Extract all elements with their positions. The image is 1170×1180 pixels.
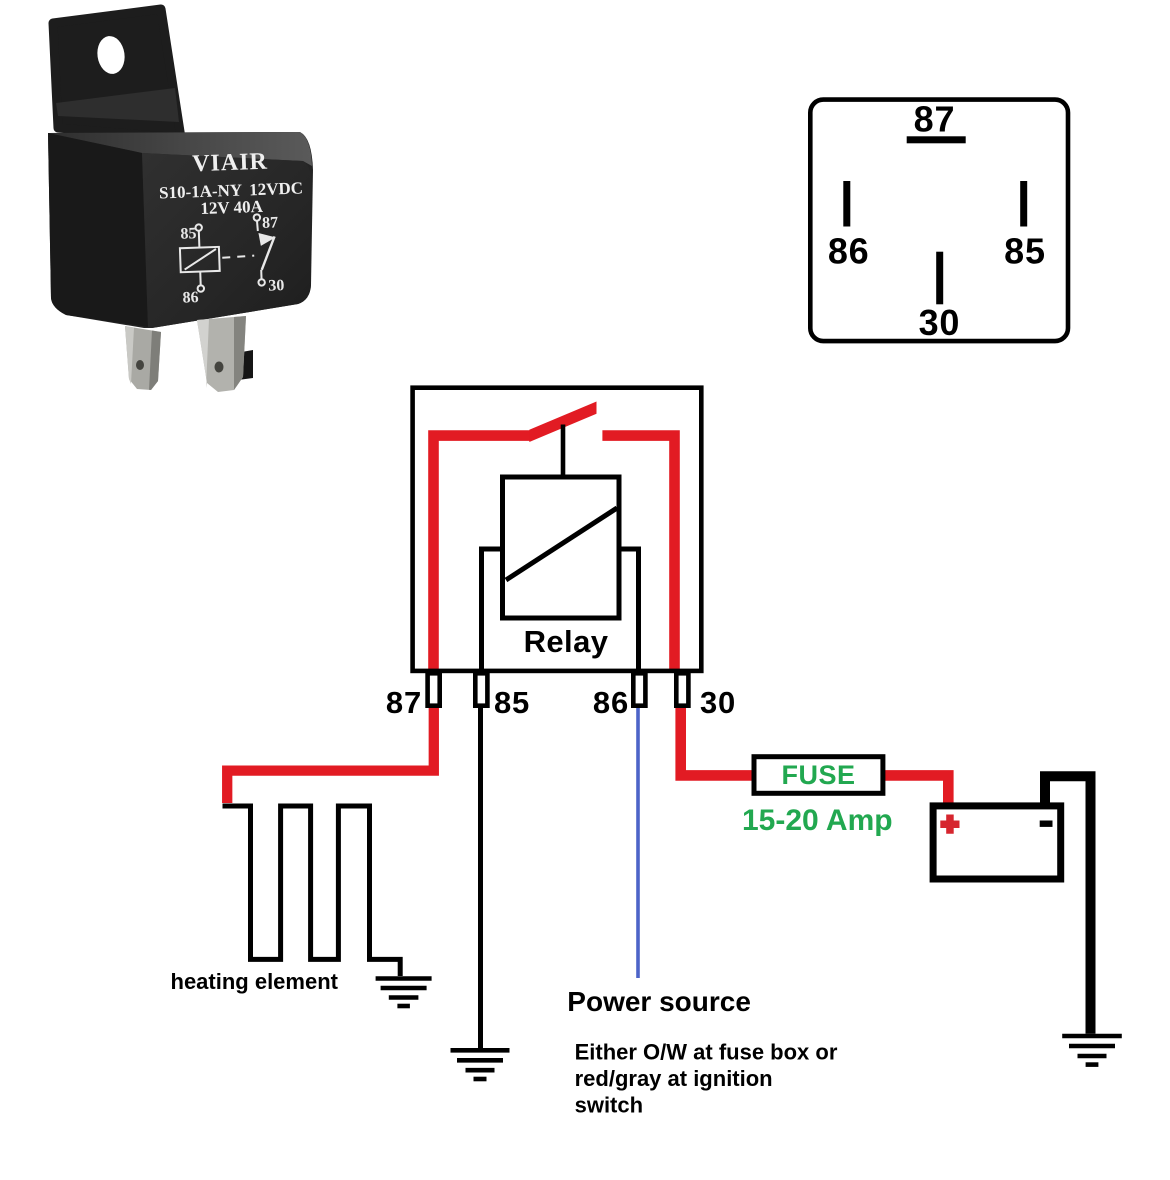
pin 30 connector <box>676 673 688 705</box>
svg-text:VIAIR: VIAIR <box>192 149 269 178</box>
fuse box <box>754 757 883 794</box>
svg-text:Power source: Power source <box>567 986 751 1017</box>
body left side face <box>48 133 148 327</box>
wire blue from pin 86 to power source <box>636 706 640 978</box>
printed pin number labels <box>180 214 285 307</box>
pin 86 connector <box>633 673 645 705</box>
heating element <box>223 806 401 976</box>
coil diagonal <box>506 508 617 580</box>
svg-text:86: 86 <box>182 289 199 307</box>
body top face <box>48 132 312 166</box>
wire black pin 86 staple <box>622 549 639 671</box>
wire red from pin 87 to heating element <box>227 704 434 804</box>
relay photo mounting tab <box>53 9 181 138</box>
svg-text:86: 86 <box>593 685 629 720</box>
printed 85 terminal <box>195 224 202 231</box>
pinout 30 pin bar <box>936 252 943 305</box>
battery minus terminal <box>1040 821 1053 827</box>
switch link black <box>561 425 566 478</box>
wire red from fuse to battery <box>884 775 948 803</box>
svg-text:30: 30 <box>268 277 285 295</box>
switch blade red <box>529 402 596 443</box>
pin 85 connector <box>475 673 487 705</box>
printed coil box <box>180 247 220 272</box>
svg-text:86: 86 <box>828 230 870 271</box>
wire red from pin 30 to fuse <box>681 704 753 776</box>
coil box <box>503 477 620 618</box>
svg-text:87: 87 <box>262 214 279 232</box>
svg-text:87: 87 <box>386 685 422 720</box>
svg-text:FUSE: FUSE <box>781 760 855 790</box>
wire black pin 85 staple <box>482 549 501 671</box>
svg-text:Relay: Relay <box>524 624 609 659</box>
relay internal red wire left (pin 87 side) <box>434 436 532 671</box>
svg-text:red/gray at ignition: red/gray at ignition <box>575 1066 773 1091</box>
pinout 86 pin bar <box>843 181 850 227</box>
svg-text:Either O/W at fuse box or: Either O/W at fuse box or <box>575 1040 838 1065</box>
svg-text:30: 30 <box>700 685 736 720</box>
tab hole <box>95 34 127 75</box>
ground heating element <box>376 979 432 1007</box>
printed schematic on relay <box>179 214 278 293</box>
body front face <box>142 153 311 328</box>
relay body silhouette <box>48 132 313 328</box>
ground pin 85 wire <box>451 1050 510 1079</box>
svg-text:15-20 Amp: 15-20 Amp <box>742 804 893 837</box>
battery plus terminal <box>940 815 959 834</box>
svg-text:30: 30 <box>919 302 961 343</box>
printed dashes <box>222 256 254 258</box>
printed 86 terminal <box>199 272 201 285</box>
svg-text:87: 87 <box>914 99 956 140</box>
relay outer box <box>413 388 702 671</box>
pin 87 connector <box>428 673 440 705</box>
battery box <box>933 806 1061 879</box>
svg-text:85: 85 <box>180 225 197 243</box>
battery wire black to ground <box>1045 776 1091 1034</box>
pinout 87 underline <box>907 136 966 143</box>
pinout 85 pin bar <box>1020 181 1027 227</box>
svg-text:85: 85 <box>494 685 530 720</box>
svg-text:heating element: heating element <box>171 969 339 994</box>
pinout diagram box <box>810 100 1068 342</box>
relay internal red wire right (pin 30 side) <box>602 436 674 671</box>
svg-text:switch: switch <box>575 1093 643 1118</box>
ground battery <box>1062 1036 1122 1065</box>
relay photo pin blade left <box>125 326 161 390</box>
wire black from pin 85 to ground <box>478 704 483 1051</box>
printed 87 terminal and switch <box>254 214 261 221</box>
relay photo pin blade right <box>197 316 253 392</box>
svg-text:85: 85 <box>1004 230 1046 271</box>
VIAIR logo text <box>158 147 304 219</box>
